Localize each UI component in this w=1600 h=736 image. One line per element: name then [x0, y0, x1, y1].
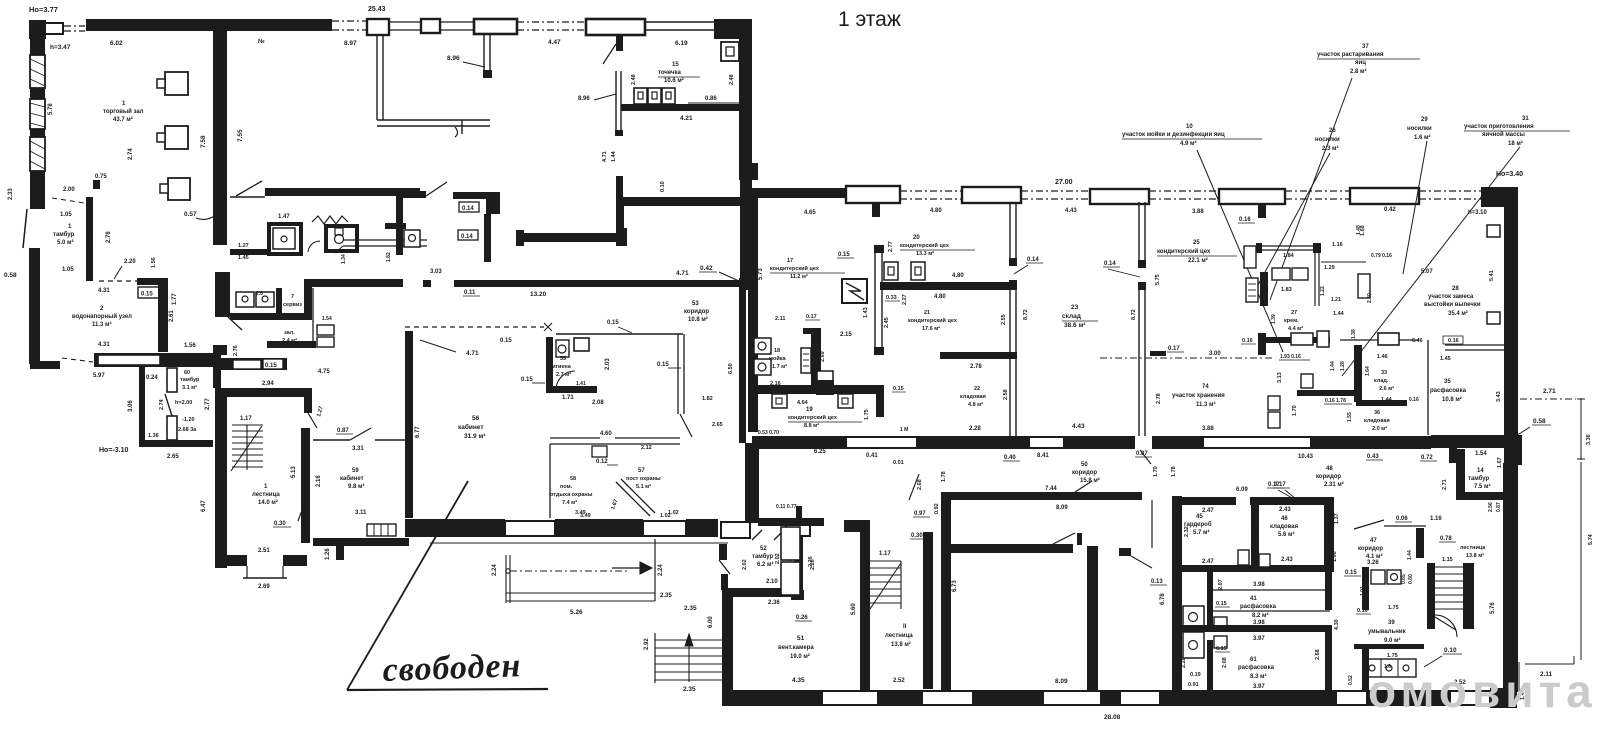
svg-text:2.24: 2.24	[658, 564, 664, 576]
svg-text:свободен: свободен	[382, 647, 522, 689]
svg-text:2.48: 2.48	[631, 74, 637, 85]
electro panel zigzag box	[842, 279, 867, 303]
west wall window boxes	[30, 39, 45, 55]
svg-text:1.75: 1.75	[864, 409, 870, 420]
svg-text:0.42: 0.42	[700, 265, 713, 272]
svg-text:3.00: 3.00	[1209, 351, 1221, 357]
wc door arc shower	[308, 241, 320, 252]
svg-text:2.27: 2.27	[902, 294, 908, 305]
svg-text:1.39: 1.39	[1271, 314, 1277, 324]
right bldg east wall	[1504, 188, 1518, 449]
svg-text:10.8 м²: 10.8 м²	[688, 316, 708, 323]
svg-text:2.26: 2.26	[810, 559, 816, 570]
wc toilet room walls	[324, 224, 328, 253]
tambur52 door leaves	[752, 530, 762, 540]
outdoor stair treads	[654, 633, 656, 683]
leader 29	[1403, 141, 1427, 274]
room57 door leaf se	[680, 414, 692, 437]
svg-text:0.79 0.16: 0.79 0.16	[1371, 253, 1392, 259]
svg-text:55: 55	[560, 356, 566, 362]
right top corner block	[1481, 187, 1518, 207]
sklad23 east wall	[1138, 202, 1140, 260]
room7 walls	[230, 313, 312, 320]
svg-text:18 м²: 18 м²	[1508, 140, 1523, 147]
svg-text:0.17: 0.17	[1168, 346, 1180, 352]
west entrance door leaf	[23, 209, 27, 248]
partition y590	[1213, 589, 1330, 591]
svg-text:0.15: 0.15	[500, 338, 512, 344]
svg-text:яиц: яиц	[1355, 60, 1366, 66]
svg-text:11.2 м²: 11.2 м²	[790, 273, 808, 280]
svg-text:носилки: носилки	[1315, 137, 1340, 143]
svg-text:0.75: 0.75	[95, 174, 107, 180]
room58 west wall	[549, 444, 551, 518]
svg-text:74: 74	[1202, 384, 1209, 390]
svg-text:1.16: 1.16	[1430, 516, 1442, 522]
appliance boxes	[312, 288, 314, 348]
svg-text:4.47: 4.47	[548, 39, 561, 46]
room7 sinks	[236, 292, 254, 307]
partition y629	[1182, 625, 1330, 632]
svg-text:4.30: 4.30	[1334, 619, 1340, 630]
svg-text:участок замеса: участок замеса	[1428, 294, 1474, 300]
veranda east edge	[654, 539, 656, 601]
svg-text:1.45: 1.45	[238, 255, 249, 261]
svg-text:1 этаж: 1 этаж	[838, 8, 901, 31]
svg-text:0.41: 0.41	[866, 453, 878, 459]
svg-text:2.20: 2.20	[124, 259, 136, 265]
svg-text:1.22: 1.22	[1320, 286, 1326, 296]
tambur52 window pier east	[786, 520, 810, 536]
window strip W1-W2	[389, 21, 421, 23]
room46 east wall	[1324, 499, 1334, 569]
svg-text:2.35: 2.35	[660, 593, 672, 599]
svg-text:5.73: 5.73	[758, 268, 764, 280]
svg-text:37: 37	[1362, 44, 1369, 50]
svg-text:№: №	[258, 38, 265, 45]
svg-text:0.11 0.77: 0.11 0.77	[776, 504, 797, 510]
svg-text:0.11: 0.11	[464, 290, 476, 296]
svg-text:1.34: 1.34	[341, 254, 347, 264]
svg-text:1.54: 1.54	[322, 316, 332, 322]
svg-text:2.78: 2.78	[1156, 393, 1162, 404]
svg-text:6.46: 6.46	[1412, 338, 1423, 344]
svg-text:-1.20: -1.20	[182, 417, 195, 423]
svg-text:0.16: 0.16	[1409, 397, 1419, 403]
svg-text:6.78: 6.78	[1160, 593, 1166, 605]
wall x160 down to south block	[158, 278, 168, 352]
window block W2	[421, 19, 440, 33]
partition x1328	[1325, 572, 1332, 610]
svg-text:0.87: 0.87	[337, 428, 349, 434]
svg-text:0.16: 0.16	[1239, 217, 1251, 223]
svg-text:3.03: 3.03	[430, 269, 442, 275]
room18 fixtures west	[754, 338, 771, 354]
svg-text:3.43: 3.43	[1496, 391, 1502, 402]
svg-text:2.69: 2.69	[820, 351, 826, 362]
svg-text:0.14: 0.14	[1027, 257, 1039, 263]
svg-text:1.26: 1.26	[325, 548, 331, 560]
annex duct fixtures	[167, 368, 177, 392]
svg-text:2.15: 2.15	[840, 332, 852, 338]
window block W4	[586, 19, 645, 35]
tambur-1 south wall + dashes	[99, 280, 137, 282]
svg-text:1.17: 1.17	[240, 416, 252, 422]
svg-text:участок приготовления: участок приготовления	[1464, 124, 1534, 130]
svg-text:0.30: 0.30	[911, 533, 923, 539]
nook wall stub x487	[483, 35, 485, 70]
svg-text:10.43: 10.43	[1298, 454, 1314, 460]
svg-text:мойка: мойка	[769, 355, 786, 362]
svg-text:8.3 м²: 8.3 м²	[1250, 673, 1266, 680]
svg-text:0.53 0.70: 0.53 0.70	[758, 430, 779, 436]
svg-text:2.76: 2.76	[233, 345, 239, 356]
leader 37	[1270, 78, 1352, 300]
tambur52 west wall w break	[719, 544, 727, 560]
svg-text:7.55: 7.55	[237, 129, 244, 142]
svg-text:8.09: 8.09	[1055, 678, 1068, 685]
room15 counter wall y106	[621, 104, 740, 111]
svg-text:2.12: 2.12	[641, 445, 652, 451]
svg-text:0.16 1.78: 0.16 1.78	[1325, 398, 1346, 404]
boxed dim 0.15	[138, 287, 159, 298]
leader 31	[1342, 147, 1520, 376]
right top facade bar west	[748, 188, 846, 198]
svg-text:1 М: 1 М	[900, 427, 908, 433]
svg-text:1.82: 1.82	[702, 396, 713, 402]
svg-text:61: 61	[1250, 657, 1257, 663]
svg-text:11.3 м²: 11.3 м²	[92, 321, 111, 328]
wall x1092	[1087, 546, 1098, 691]
svg-text:50: 50	[1081, 462, 1088, 468]
svg-text:1.64: 1.64	[1365, 366, 1371, 376]
svg-text:2.16: 2.16	[316, 475, 322, 487]
svg-text:1.6 м²: 1.6 м²	[1414, 134, 1430, 141]
svg-text:53: 53	[692, 301, 699, 307]
svg-text:2.43: 2.43	[1279, 507, 1291, 513]
krem wall y248	[1260, 245, 1317, 247]
svg-text:Но=-3.10: Но=-3.10	[99, 447, 128, 454]
svg-text:лестница: лестница	[1460, 545, 1486, 551]
svg-text:1.45: 1.45	[1440, 356, 1451, 362]
svg-text:60: 60	[184, 370, 190, 376]
svg-text:2.71: 2.71	[1543, 388, 1556, 395]
right bldg west wall	[748, 198, 758, 432]
corridor6 wall east piece	[453, 192, 488, 199]
svg-text:0.16: 0.16	[1357, 608, 1368, 614]
corridor6 door leaf	[426, 182, 447, 196]
svg-text:3.11: 3.11	[355, 510, 367, 516]
wall y286 rooms20/21	[880, 282, 1017, 290]
svg-text:4.43: 4.43	[1072, 423, 1085, 430]
stair2 east wall	[1463, 563, 1474, 629]
svg-text:2.94: 2.94	[262, 381, 274, 387]
svg-text:2.8 м²: 2.8 м²	[1350, 68, 1366, 75]
tambur52 south wall	[730, 588, 803, 597]
svg-text:1.56: 1.56	[151, 257, 157, 268]
svg-text:2.07: 2.07	[1218, 579, 1224, 590]
svg-text:водонапорный узел: водонапорный узел	[72, 313, 132, 320]
ventkamera west wall	[722, 588, 733, 706]
svg-text:кондитерский цех: кондитерский цех	[788, 414, 838, 421]
svg-text:3.49: 3.49	[575, 510, 586, 516]
room15 west wall	[615, 71, 617, 136]
stair2 west wall	[1427, 563, 1435, 629]
svg-text:1.17: 1.17	[879, 551, 891, 557]
stair1 treads	[232, 424, 263, 426]
svg-text:6.25: 6.25	[814, 449, 826, 455]
svg-text:коридор: коридор	[1072, 470, 1097, 476]
svg-text:4.21: 4.21	[680, 115, 693, 122]
svg-text:20: 20	[913, 235, 920, 241]
svg-text:0.65: 0.65	[1401, 574, 1407, 584]
south wall main bar	[94, 353, 214, 367]
svg-text:0.15: 0.15	[141, 292, 153, 298]
svg-text:зал.: зал.	[284, 330, 295, 336]
wc east wall x399	[396, 190, 403, 255]
svg-text:2.32: 2.32	[1255, 529, 1261, 540]
svg-text:59: 59	[352, 468, 359, 474]
svg-text:0.15: 0.15	[265, 363, 277, 369]
svg-text:2.03: 2.03	[605, 358, 611, 370]
room15 south wall	[621, 197, 740, 206]
svg-text:тамбур: тамбур	[53, 231, 75, 238]
svg-text:35.4 м²: 35.4 м²	[1448, 310, 1468, 317]
svg-text:2.43: 2.43	[1281, 557, 1293, 563]
svg-text:6.77: 6.77	[415, 426, 421, 438]
west wall window hatches	[30, 59, 45, 66]
window RW1 + stub	[846, 186, 900, 203]
dashed former wall	[405, 326, 544, 328]
svg-text:1.27: 1.27	[238, 243, 249, 249]
svg-text:6.2 м²: 6.2 м²	[757, 561, 773, 568]
svg-text:5.74: 5.74	[1588, 533, 1594, 545]
svg-text:1.44: 1.44	[1407, 550, 1413, 560]
svg-text:0.30: 0.30	[274, 521, 286, 527]
stair1 ne corner + door	[304, 388, 312, 413]
svg-text:19: 19	[806, 407, 813, 413]
svg-text:2.65: 2.65	[167, 454, 179, 460]
svg-text:3.31: 3.31	[352, 446, 364, 452]
svg-text:склад: склад	[1062, 313, 1081, 320]
svg-text:1.44: 1.44	[1333, 311, 1345, 317]
svg-text:1.36: 1.36	[148, 433, 159, 439]
svg-text:8.72: 8.72	[1131, 309, 1137, 320]
svg-text:5.41: 5.41	[1489, 270, 1495, 281]
shower room walls	[267, 222, 271, 256]
outdoor stair arrow	[688, 640, 690, 682]
svg-text:2.32: 2.32	[1184, 526, 1190, 537]
svg-text:0.91: 0.91	[1188, 682, 1199, 688]
svg-text:2.68: 2.68	[1315, 649, 1321, 660]
svg-text:0.15: 0.15	[657, 362, 669, 368]
krem extra wall y262	[1321, 261, 1366, 263]
washbasin row	[1364, 659, 1416, 677]
svg-text:2.10: 2.10	[766, 579, 778, 585]
room 40 walls	[1362, 649, 1369, 692]
svg-text:1.47: 1.47	[278, 214, 290, 220]
svg-text:2.78: 2.78	[106, 231, 112, 243]
wall y496 long	[941, 492, 1142, 500]
svg-text:25: 25	[1193, 240, 1200, 246]
svg-text:8.72: 8.72	[1023, 309, 1029, 320]
svg-text:10.6 м²: 10.6 м²	[664, 77, 684, 84]
svg-text:2.6 м²: 2.6 м²	[1379, 385, 1394, 392]
room18 wall	[803, 328, 821, 334]
svg-text:2.31 м²: 2.31 м²	[1324, 481, 1344, 488]
svg-text:1.38: 1.38	[1351, 329, 1357, 339]
svg-text:5.26: 5.26	[570, 609, 583, 616]
svg-text:4.65: 4.65	[804, 210, 816, 216]
svoboden diagonal	[347, 481, 468, 690]
top facade dashes + 8.97	[332, 20, 368, 22]
east wall lower	[739, 278, 753, 290]
svg-text:гигиена: гигиена	[550, 364, 572, 370]
svg-text:тамбур: тамбур	[752, 553, 774, 560]
hall table 1	[165, 72, 188, 95]
svg-text:8.8 м²: 8.8 м²	[804, 422, 819, 429]
svg-text:13.3 м²: 13.3 м²	[916, 250, 934, 257]
svg-text:2.56: 2.56	[1488, 502, 1494, 512]
svg-text:h=2.00: h=2.00	[175, 400, 192, 406]
svg-text:носилки: носилки	[1407, 126, 1432, 132]
svg-text:расфасовка: расфасовка	[1240, 603, 1277, 610]
svg-text:3.88: 3.88	[1202, 426, 1214, 432]
svg-text:0.80: 0.80	[1408, 574, 1414, 584]
svg-text:41: 41	[1250, 596, 1257, 602]
svg-text:1.28: 1.28	[1340, 361, 1346, 371]
svg-text:8.96: 8.96	[578, 96, 590, 102]
window RW5	[1350, 188, 1419, 204]
svg-text:выстойки выпечки: выстойки выпечки	[1424, 301, 1481, 308]
svg-text:31: 31	[1522, 116, 1529, 122]
svg-text:4.71: 4.71	[602, 151, 608, 162]
door leaf near hall	[236, 181, 262, 196]
svg-text:пост охраны: пост охраны	[626, 476, 661, 482]
svg-text:0.92: 0.92	[934, 503, 940, 514]
shelf boxes room74	[1268, 396, 1280, 410]
svg-text:2.35: 2.35	[684, 605, 697, 612]
svg-text:умывальник: умывальник	[1368, 629, 1406, 635]
svg-text:кондитерский цех: кондитерский цех	[900, 242, 950, 249]
wall x879 vertical	[874, 252, 876, 347]
svg-text:45: 45	[1196, 514, 1203, 520]
svg-text:7.4 м²: 7.4 м²	[562, 499, 577, 506]
hall table 3	[168, 178, 190, 200]
svg-text:22: 22	[974, 386, 980, 392]
svg-text:сервиз: сервиз	[283, 302, 302, 308]
svg-text:2.28: 2.28	[1181, 657, 1187, 668]
svg-text:пом.: пом.	[560, 484, 573, 490]
partition y611	[1213, 610, 1330, 612]
svg-text:2.65: 2.65	[712, 422, 723, 428]
veranda top dash-dot + arrow	[510, 570, 630, 572]
svg-text:1.54: 1.54	[1475, 451, 1487, 457]
svg-text:2.68: 2.68	[917, 479, 923, 490]
svg-text:2.36: 2.36	[768, 600, 780, 606]
tambur52 window pier west	[721, 522, 750, 538]
svg-text:58: 58	[570, 476, 576, 482]
svg-text:6.50: 6.50	[728, 363, 734, 374]
central wall V1 lower	[213, 345, 227, 355]
small box room57	[592, 446, 607, 457]
svg-text:4.31: 4.31	[98, 342, 110, 348]
svg-text:6.19: 6.19	[675, 40, 688, 47]
svg-text:яичной массы: яичной массы	[1482, 131, 1525, 138]
svg-text:0.43: 0.43	[1367, 454, 1379, 460]
svg-text:0.24: 0.24	[146, 375, 158, 381]
gigiena55 south wall	[546, 386, 597, 393]
svg-text:3.97: 3.97	[1253, 684, 1265, 690]
facade dash 2	[1021, 190, 1090, 192]
east wall jog	[1504, 435, 1522, 465]
svg-text:кладовая: кладовая	[1364, 418, 1390, 424]
svg-text:5.0 м²: 5.0 м²	[57, 239, 73, 246]
svg-text:2.68 3а: 2.68 3а	[178, 427, 197, 433]
stair1 south wall	[227, 555, 247, 566]
svg-text:II: II	[903, 624, 907, 630]
svg-text:1.83: 1.83	[1281, 287, 1292, 293]
room15 cash boxes	[634, 88, 647, 104]
door boxes wall y390	[772, 394, 787, 408]
kabinet59 south wall + radiator	[367, 524, 396, 536]
leader 26	[1258, 153, 1330, 285]
svg-text:1.48: 1.48	[1356, 225, 1362, 235]
svg-text:лестница: лестница	[252, 492, 280, 498]
svg-text:2.40: 2.40	[1367, 293, 1373, 303]
svg-text:26: 26	[1329, 128, 1336, 134]
wall 36/35	[1427, 340, 1429, 435]
svg-text:1.82: 1.82	[386, 252, 392, 262]
svg-text:9.8 м²: 9.8 м²	[348, 483, 364, 490]
south wall west part	[30, 361, 60, 369]
block west wall x1177	[1172, 496, 1182, 692]
hall table 2	[165, 126, 188, 149]
svg-text:6.00: 6.00	[708, 616, 714, 628]
partition x1210	[1207, 572, 1213, 625]
svg-text:кабинет: кабинет	[458, 423, 484, 431]
facade dash 5	[1419, 190, 1481, 192]
svg-text:0.19: 0.19	[1190, 672, 1201, 678]
svg-text:15: 15	[672, 62, 679, 68]
svg-text:0.16: 0.16	[1242, 338, 1253, 344]
svg-text:0.06: 0.06	[1396, 516, 1408, 522]
svg-text:4.71: 4.71	[466, 350, 479, 357]
svg-text:19.0 м²: 19.0 м²	[790, 653, 810, 660]
svg-text:0.57: 0.57	[184, 211, 197, 218]
svg-text:8.09: 8.09	[1056, 505, 1068, 511]
room57 east wall x683	[677, 334, 679, 414]
svg-text:8.2 м²: 8.2 м²	[1252, 612, 1268, 619]
corridor53 wall stub x620	[616, 206, 624, 246]
svg-text:2.08: 2.08	[1222, 657, 1228, 668]
wc cross wall east	[385, 223, 406, 229]
svg-text:6.73: 6.73	[952, 580, 958, 592]
wall 45/46	[1251, 499, 1259, 569]
svg-text:2.33: 2.33	[8, 188, 14, 200]
krem wall x1317	[1314, 246, 1316, 306]
tambur14 west wall	[1456, 449, 1465, 494]
stair1 north wall	[215, 388, 311, 397]
stair1 east wall	[301, 428, 310, 543]
dash line y358	[1100, 357, 1272, 359]
svg-text:10: 10	[1186, 124, 1193, 130]
washbasin boxes 20	[884, 262, 898, 280]
gigiena55 door arc	[556, 371, 575, 390]
svoboden underline	[347, 689, 548, 690]
svg-text:0.17: 0.17	[806, 314, 817, 320]
tambur52 east wall	[794, 537, 803, 594]
